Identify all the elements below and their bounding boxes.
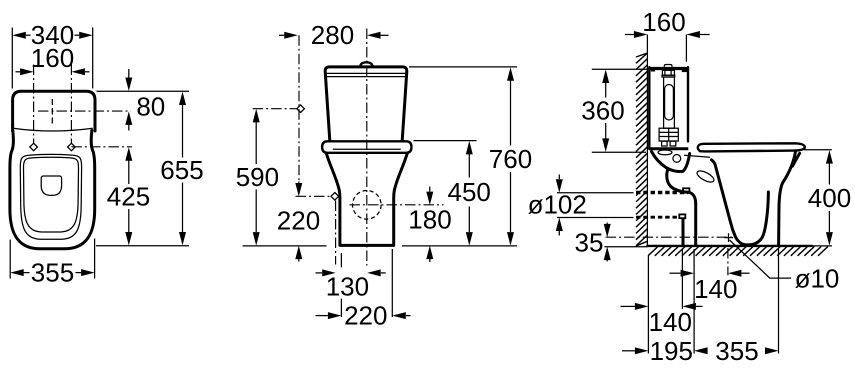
spigot flange bottom — [679, 214, 685, 218]
dim o102 hidden lines through wall — [636, 192, 688, 194]
seat hinge circle — [673, 155, 681, 163]
center mark cross — [51, 99, 53, 105]
outlet spigot dashed bottom — [636, 216, 679, 218]
svg-text:280: 280 — [311, 20, 354, 50]
outlet back column — [694, 203, 697, 245]
tank lid lines — [326, 72, 407, 74]
floor extension line left — [243, 245, 327, 247]
bowl back top curve — [652, 152, 684, 172]
outlet spigot dashed top — [636, 191, 681, 193]
svg-text:130: 130 — [326, 272, 369, 302]
pedestal width extension lines — [340, 253, 342, 267]
main centerline front view — [366, 29, 368, 266]
dim 80 arrow top — [125, 78, 132, 92]
cistern front wall — [687, 67, 689, 141]
centerline right fixing hole — [70, 65, 72, 144]
dim 425 line and arrows — [125, 147, 132, 161]
dim 340 arrows and line — [12, 32, 25, 39]
dim o102 lower line and arrow — [557, 217, 634, 219]
svg-text:760: 760 — [489, 144, 532, 174]
seat level extension line — [414, 140, 477, 142]
dim 160 arrows — [20, 68, 33, 75]
supply level line 590 — [253, 108, 297, 110]
svg-text:195: 195 — [650, 336, 693, 366]
trap weir curve — [667, 169, 696, 203]
dim 655 line and arrows — [179, 92, 186, 106]
svg-text:360: 360 — [581, 95, 624, 125]
svg-text:450: 450 — [448, 177, 491, 207]
svg-text:220: 220 — [344, 301, 387, 331]
dim 160 arrows side view — [634, 31, 648, 38]
dim 130 arrows — [322, 269, 336, 276]
seat ring inner — [24, 157, 79, 232]
trap and sump curve — [736, 192, 769, 245]
dim 280 arrows — [284, 32, 298, 39]
tank plan outline — [13, 91, 95, 131]
dim 360 line and arrows — [602, 70, 609, 84]
dim 450 line and arrows — [466, 141, 473, 155]
dim 35 level line — [606, 236, 734, 238]
rim cavity oval — [695, 169, 715, 185]
svg-text:355: 355 — [31, 258, 74, 288]
water supply centerline vertical — [298, 35, 300, 192]
dim 220 bottom arrows — [328, 312, 342, 319]
dim 360 extension top — [592, 68, 648, 70]
svg-text:160: 160 — [31, 43, 74, 73]
dim 355 extension line left — [9, 240, 11, 279]
bowl rim block under seat — [685, 155, 710, 157]
dim 340 extension line left — [11, 28, 13, 89]
supply diamond — [297, 105, 305, 113]
floor extension line right — [402, 245, 517, 247]
seat hinge curve — [683, 154, 690, 172]
chain extension bowl front — [778, 249, 780, 354]
svg-text:425: 425 — [107, 182, 150, 212]
pedestal front outline — [327, 154, 408, 246]
floor hatching — [648, 247, 658, 256]
chain extension outlet front — [681, 249, 683, 309]
fixing hole diamond left — [30, 143, 38, 151]
dim 80 arrow bottom — [125, 111, 132, 125]
bowl plan outline — [10, 131, 95, 249]
flush valve mechanism box — [659, 128, 678, 141]
svg-text:ø10: ø10 — [795, 263, 840, 293]
fixing hole diamond front — [331, 193, 339, 201]
dim 180 arrows — [426, 192, 433, 206]
cistern corner bracket left — [651, 68, 655, 72]
fixing hole level line front — [296, 195, 332, 197]
dim 355 side arrows — [694, 347, 708, 354]
svg-text:220: 220 — [277, 206, 320, 236]
drain dashed circle — [353, 191, 382, 220]
dim 140 second arrows — [635, 303, 649, 310]
tank plan bottom edge — [13, 128, 93, 131]
seat band front view — [322, 141, 411, 153]
bowl front exterior — [779, 151, 796, 245]
svg-text:355: 355 — [715, 336, 758, 366]
dim 35 floor line left of wall — [605, 246, 648, 248]
cistern bottom — [649, 147, 688, 150]
floor extension to dim 400 — [806, 245, 832, 247]
dim 220 left arrows — [295, 183, 302, 197]
dim 340 extension line right — [92, 28, 94, 89]
dim 355 arrows — [10, 269, 24, 276]
svg-text:140: 140 — [649, 307, 692, 337]
wall face line — [646, 35, 648, 246]
flush button bump — [360, 62, 372, 66]
bowl funnel inner line — [712, 160, 736, 237]
svg-text:655: 655 — [160, 155, 203, 185]
leader line o10 — [730, 240, 792, 278]
trap bottom cross mark — [724, 237, 733, 239]
dim o102 upper line and arrow — [557, 192, 634, 194]
fill valve head box — [662, 70, 674, 75]
cistern back wall — [648, 67, 650, 149]
drain centerline below floor — [727, 248, 729, 275]
dim 360 extension bottom — [592, 151, 646, 153]
bowl bottom extension line right — [96, 245, 189, 247]
chain extension wall — [647, 256, 649, 354]
dim 400 line and arrows — [826, 150, 833, 164]
floor line — [647, 245, 812, 247]
seat bumper mark — [792, 153, 799, 166]
centerline left fixing hole — [33, 65, 35, 144]
tank front outline — [325, 67, 407, 141]
svg-text:180: 180 — [408, 204, 451, 234]
fill valve column — [664, 77, 675, 128]
fill valve flange — [662, 75, 675, 77]
dim 760 line and arrows — [507, 67, 514, 81]
outlet front column — [682, 220, 685, 245]
svg-text:400: 400 — [808, 183, 851, 213]
flush pipe ellipse — [658, 150, 672, 155]
svg-text:ø102: ø102 — [528, 190, 587, 220]
cistern top — [649, 67, 688, 70]
spigot flange top — [683, 188, 689, 192]
tank top extension line right — [97, 90, 190, 92]
dim 195 arrow — [635, 347, 649, 354]
dim 590 line and arrows — [253, 109, 260, 123]
flush opening shape — [41, 176, 61, 195]
wall hatching — [636, 53, 647, 57]
fixing hole centerline down — [335, 201, 337, 265]
svg-text:590: 590 — [236, 162, 279, 192]
fixing hole level line — [71, 146, 132, 148]
chain extension outlet back — [693, 249, 695, 354]
seat ring outer — [20, 154, 81, 239]
seat band inner line — [333, 148, 401, 150]
dim 355 extension line right — [94, 239, 96, 279]
drain crosshair horizontal — [350, 204, 444, 206]
cistern corner bracket right — [682, 68, 688, 72]
svg-text:80: 80 — [136, 92, 165, 122]
dim 35 arrows — [604, 224, 611, 238]
center mark horizontal line to dim 80 — [38, 110, 131, 112]
dim 400 extension top — [804, 149, 832, 151]
dim 140 first arrows — [681, 270, 695, 277]
dim 160 extension right — [685, 35, 687, 62]
fixing hole diamond right — [68, 143, 76, 151]
seat and lid profile — [698, 143, 805, 151]
fill valve float capsule — [665, 85, 674, 121]
mechanism feet — [662, 141, 668, 146]
svg-text:140: 140 — [694, 274, 737, 304]
svg-text:35: 35 — [575, 227, 604, 257]
tank top extension line — [409, 66, 517, 68]
push button cap — [664, 65, 672, 67]
svg-text:160: 160 — [642, 7, 685, 37]
